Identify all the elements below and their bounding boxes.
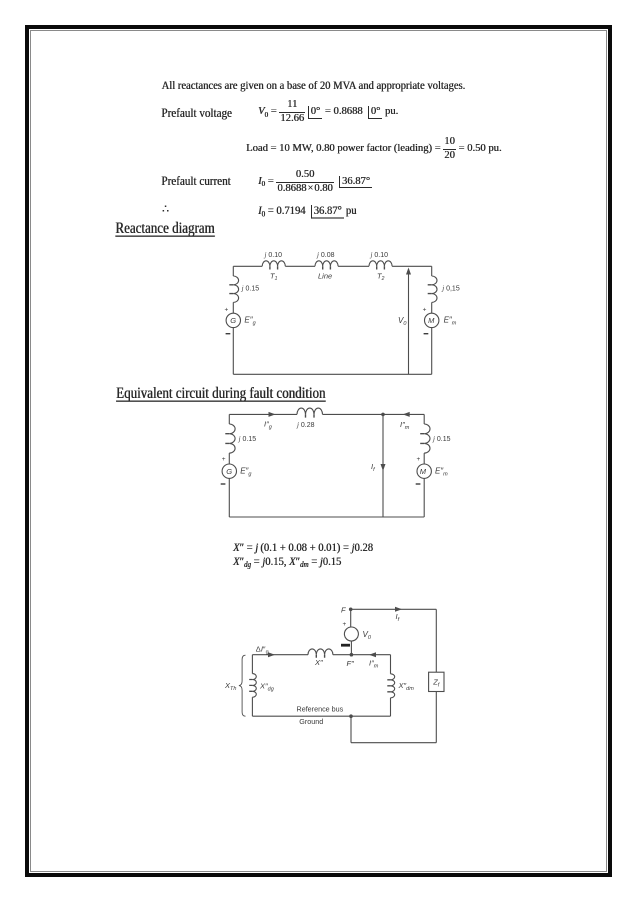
svg-text:+: + [343, 621, 347, 628]
svg-text:j 0.10: j 0.10 [370, 251, 389, 259]
svg-text:j 0.28: j 0.28 [296, 421, 315, 429]
svg-text:ΔI″g: ΔI″g [256, 644, 269, 655]
wire bottom return [351, 742, 436, 744]
svg-text:X″: X″ [314, 658, 323, 667]
wire right vertical top [431, 266, 433, 276]
svg-text:X″dm: X″dm [398, 681, 415, 692]
main loop top wire left [252, 654, 308, 656]
inductor j0.15 generator side [233, 276, 238, 302]
ground node dot [349, 714, 353, 718]
wire left vertical bottom [228, 478, 230, 517]
right vertical bottom [390, 698, 392, 716]
therefore line [162, 205, 169, 217]
svg-text:Line: Line [318, 272, 332, 281]
svg-text:I″g: I″g [264, 420, 273, 431]
wire source to F'' [350, 641, 352, 655]
svg-text:j 0.08: j 0.08 [316, 251, 335, 259]
node F'' dot [350, 653, 354, 657]
svg-text:If: If [396, 612, 400, 623]
wire right vertical mid [423, 453, 425, 464]
fault impedance Zf box [429, 672, 444, 691]
arrow If down [381, 464, 386, 471]
inductor T2 j0.10 [369, 261, 392, 267]
wire left vertical mid [232, 302, 234, 313]
arrow Im left [369, 652, 376, 657]
svg-text:XTh: XTh [224, 681, 236, 692]
wire top mid2 [338, 265, 369, 267]
label minus G [226, 333, 231, 335]
arrow Ig [269, 412, 276, 417]
wire top left [229, 413, 297, 415]
svg-text:V0: V0 [398, 316, 407, 327]
node V0 arrow line [408, 272, 410, 374]
svg-text:Reference bus: Reference bus [297, 705, 344, 714]
minus bold under source [341, 644, 350, 647]
right vertical of loop top [390, 655, 392, 674]
wire right vertical bottom [431, 328, 433, 375]
svg-text:T2: T2 [377, 272, 385, 283]
svg-text:+: + [225, 307, 229, 314]
svg-text:j 0,15: j 0,15 [441, 285, 460, 293]
svg-text:Zf: Zf [432, 678, 440, 689]
svg-text:T1: T1 [270, 272, 278, 283]
voltage source V0 circle [344, 627, 358, 641]
svg-text:Ground: Ground [299, 717, 323, 726]
wire left vertical bottom [232, 328, 234, 375]
svg-text:j 0.15: j 0.15 [241, 285, 260, 293]
heading 2 [116, 384, 325, 403]
svg-text:G: G [226, 467, 232, 476]
motor M circle [417, 464, 431, 478]
left vertical of loop [251, 655, 253, 674]
arrow Im (points left) [403, 412, 410, 417]
wire top right [323, 413, 425, 415]
inductor j0.15 motor side [432, 276, 437, 302]
generator G circle [222, 464, 236, 478]
inductor j0.28 [297, 408, 323, 414]
svg-text:M: M [420, 467, 427, 476]
prefault current line [161, 176, 230, 189]
inductor j0.15 right [424, 424, 430, 453]
arrow dIg right [268, 652, 275, 657]
svg-text:G: G [230, 316, 236, 325]
wire bottom [229, 516, 424, 518]
wire Zf bottom down [435, 692, 437, 743]
wire top left segment [233, 265, 262, 267]
arrow If right [395, 607, 402, 612]
wire up to ground dot [350, 716, 352, 743]
svg-text:j 0.10: j 0.10 [264, 251, 283, 259]
motor M circle [425, 313, 439, 327]
wire left vertical top [232, 266, 234, 276]
inductor T1 j0.10 [262, 261, 285, 267]
prefault voltage line [161, 108, 232, 121]
equations under circuit 2 [233, 543, 373, 555]
wire F to top right [351, 608, 437, 610]
svg-text:F: F [341, 605, 346, 614]
wire top mid1 [285, 265, 315, 267]
wire coil to F'' [333, 654, 391, 656]
inductor X''dm [391, 674, 395, 698]
svg-text:E″g: E″g [240, 467, 252, 478]
svg-text:I″m: I″m [400, 420, 410, 431]
text line 1 [162, 81, 466, 93]
wire right vertical mid [431, 302, 433, 313]
svg-text:j 0.15: j 0.15 [432, 435, 451, 443]
inductor Line j0.08 [315, 261, 338, 267]
left vertical bottom [251, 697, 253, 716]
svg-text:+: + [423, 307, 427, 314]
label minus G [221, 483, 226, 485]
svg-text:E″m: E″m [435, 467, 448, 478]
wire left vertical mid [228, 453, 230, 464]
svg-text:If: If [371, 462, 375, 473]
wire right vertical bottom [423, 478, 425, 517]
inductor X''dg [252, 674, 256, 698]
load line [246, 138, 502, 160]
svg-text:M: M [428, 316, 435, 325]
wire If vertical [382, 414, 384, 517]
wire right vertical to Zf [435, 609, 437, 672]
label minus M [424, 333, 429, 335]
wire bottom [233, 373, 431, 375]
svg-text:+: + [222, 456, 226, 463]
svg-text:+: + [417, 456, 421, 463]
wire right vertical top [423, 414, 425, 424]
generator G circle [226, 313, 240, 327]
inductor X'' [308, 649, 333, 655]
svg-text:X″dg: X″dg [259, 681, 275, 692]
svg-text:V0: V0 [363, 630, 372, 641]
svg-text:F″: F″ [347, 659, 355, 668]
brace XTh [239, 655, 246, 716]
node junction dot [381, 413, 385, 417]
wire left vertical top [228, 414, 230, 424]
wire top right segment [392, 265, 432, 267]
label minus M [416, 483, 421, 485]
node F dot [349, 608, 353, 612]
svg-text:j 0.15: j 0.15 [238, 435, 257, 443]
reference bus bottom wire [252, 715, 390, 717]
wire F down to source [350, 609, 352, 627]
svg-text:I″m: I″m [369, 659, 379, 670]
inductor j0.15 left [229, 424, 235, 453]
svg-text:E″m: E″m [444, 316, 457, 327]
heading 1 [115, 219, 214, 238]
svg-text:E″g: E″g [244, 316, 256, 327]
